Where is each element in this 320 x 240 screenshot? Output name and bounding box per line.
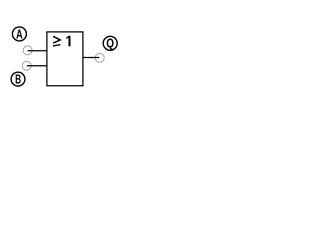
svg-text:Q: Q <box>106 37 114 51</box>
node A <box>12 27 26 42</box>
node B <box>11 72 25 86</box>
gate function label ≥1 <box>53 36 70 47</box>
terminal pin A <box>23 46 32 55</box>
wire output Q <box>83 57 99 59</box>
svg-text:A: A <box>16 28 23 42</box>
terminal pin Q <box>95 53 104 62</box>
svg-text:B: B <box>15 72 21 86</box>
wire input A <box>28 50 47 52</box>
or-gate U1 (IEC box symbol) <box>47 32 83 86</box>
node Q <box>103 36 117 50</box>
terminal pin B <box>22 61 31 70</box>
wire input B <box>27 65 47 67</box>
